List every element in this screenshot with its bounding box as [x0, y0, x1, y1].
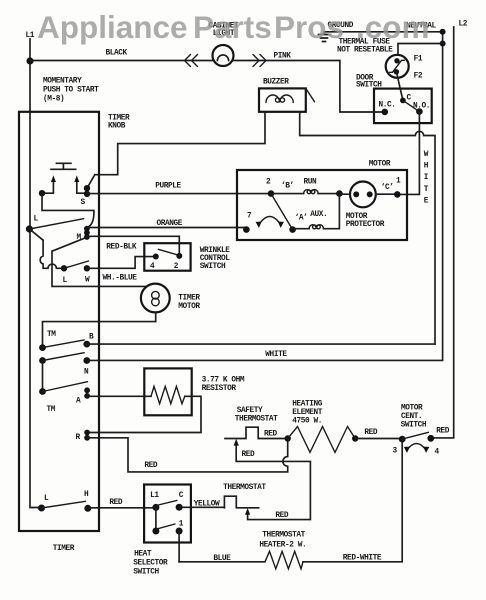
- motor box: [237, 170, 407, 240]
- svg-text:N.C.: N.C.: [379, 102, 396, 110]
- svg-text:L1: L1: [150, 492, 159, 500]
- svg-text:Parts: Parts: [193, 9, 272, 45]
- wire L to L-W switch: [29, 229, 64, 268]
- switch timer L-H: [38, 505, 45, 512]
- svg-text:WHITE: WHITE: [265, 351, 287, 359]
- wire BLACK: [30, 60, 214, 62]
- svg-text:HEAT: HEAT: [134, 551, 152, 559]
- wire protector leads: [339, 193, 397, 195]
- svg-text:‘A’: ‘A’: [295, 215, 308, 223]
- switch arm motor B to A: [271, 194, 293, 230]
- centrifugal action arc motor: [258, 217, 281, 226]
- svg-text:RED: RED: [436, 428, 450, 436]
- svg-text:I: I: [424, 174, 429, 182]
- wire RED from R to heater junction: [87, 438, 288, 472]
- heat selector switch: [144, 485, 191, 543]
- node M dots: [84, 226, 90, 232]
- wire M to timer motor: [52, 237, 147, 286]
- wire NEUTRAL: [87, 32, 443, 361]
- svg-text:C: C: [407, 95, 412, 103]
- svg-text:W: W: [85, 277, 90, 285]
- svg-text:ORANGE: ORANGE: [157, 220, 183, 228]
- svg-text:SAFETY: SAFETY: [237, 407, 263, 415]
- svg-text:RED: RED: [144, 462, 158, 470]
- svg-text:BUZZER: BUZZER: [263, 79, 289, 87]
- switch L-W: [61, 265, 67, 271]
- timer box: [19, 112, 99, 531]
- svg-text:4750 W.: 4750 W.: [292, 418, 322, 426]
- svg-text:B: B: [89, 334, 94, 342]
- svg-text:F1: F1: [414, 56, 423, 64]
- svg-text:WH.-BLUE: WH.-BLUE: [103, 275, 138, 283]
- svg-text:3.77 K OHM: 3.77 K OHM: [202, 377, 245, 385]
- wire connector chevrons right: [253, 55, 266, 67]
- svg-text:RED-BLK: RED-BLK: [106, 244, 137, 252]
- svg-text:‘C’: ‘C’: [381, 184, 394, 192]
- svg-text:THERMOSTAT: THERMOSTAT: [235, 416, 278, 424]
- svg-text:A: A: [76, 398, 81, 406]
- push button: [51, 163, 76, 169]
- svg-text:W: W: [424, 151, 429, 159]
- wire ORANGE: [87, 227, 247, 229]
- timer motor: [141, 284, 170, 313]
- svg-text:THERMOSTAT: THERMOSTAT: [223, 484, 266, 492]
- svg-text:R: R: [76, 434, 81, 442]
- svg-text:PROTECTOR: PROTECTOR: [346, 221, 385, 229]
- svg-text:BLUE: BLUE: [213, 555, 231, 563]
- svg-text:F2: F2: [414, 73, 423, 81]
- svg-text:Pros: Pros: [274, 9, 344, 45]
- svg-text:PINK: PINK: [274, 53, 292, 61]
- svg-text:RED: RED: [264, 431, 278, 439]
- svg-text:BLACK: BLACK: [106, 50, 128, 58]
- wire WHITE: [87, 343, 435, 345]
- wire fuse to door switch C: [396, 72, 403, 101]
- svg-text:.com: .com: [356, 9, 430, 45]
- svg-text:2: 2: [174, 263, 179, 271]
- svg-text:KNOB: KNOB: [108, 123, 126, 131]
- node motor terminal A: [289, 226, 296, 233]
- svg-text:MOTOR: MOTOR: [369, 161, 391, 169]
- wire YELLOW: [179, 506, 224, 508]
- node S dots: [84, 185, 90, 191]
- wire PINK: [233, 61, 385, 113]
- svg-text:1: 1: [396, 178, 401, 186]
- wire L2: [431, 27, 454, 438]
- node A dots: [84, 387, 90, 393]
- node heater junction left: [285, 435, 291, 441]
- svg-text:SELECTOR: SELECTOR: [133, 560, 168, 568]
- svg-text:MOMENTARY: MOMENTARY: [43, 78, 82, 86]
- svg-text:YELLOW: YELLOW: [194, 501, 220, 509]
- thermal fuse: [386, 55, 409, 78]
- wire PURPLE: [87, 193, 271, 195]
- svg-text:C: C: [179, 492, 184, 500]
- svg-text:ELEMENT: ELEMENT: [292, 409, 323, 417]
- wire bottom BLUE / RED-WHITE: [179, 439, 402, 562]
- svg-text:L: L: [44, 495, 49, 503]
- svg-text:TIMER: TIMER: [178, 295, 200, 303]
- svg-text:PUSH TO START: PUSH TO START: [43, 87, 99, 95]
- svg-text:CONTROL: CONTROL: [200, 255, 231, 263]
- svg-text:L: L: [63, 277, 68, 285]
- svg-text:PURPLE: PURPLE: [155, 183, 181, 191]
- svg-text:N: N: [84, 369, 89, 377]
- lamp cabinet light: [213, 45, 234, 66]
- resistor 3.77 K OHM: [87, 395, 151, 397]
- svg-text:MOTOR: MOTOR: [401, 405, 423, 413]
- svg-text:RUN: RUN: [304, 179, 318, 187]
- svg-text:SWITCH: SWITCH: [200, 263, 226, 271]
- wrinkle control switch: [144, 243, 190, 271]
- svg-text:WRINKLE: WRINKLE: [200, 247, 231, 255]
- svg-text:AUX.: AUX.: [310, 211, 327, 219]
- svg-text:CENT.: CENT.: [401, 413, 422, 421]
- svg-text:MOTOR: MOTOR: [346, 213, 368, 221]
- svg-text:Appliance: Appliance: [37, 9, 188, 45]
- svg-text:L: L: [34, 216, 39, 224]
- svg-text:4: 4: [435, 449, 440, 457]
- node neutral junction dots: [440, 29, 446, 35]
- node R dots: [84, 430, 90, 436]
- wire to cent switch: [355, 438, 402, 440]
- svg-text:TM: TM: [47, 406, 56, 414]
- wire buzzer left lead: [87, 112, 265, 188]
- svg-text:HEATING: HEATING: [292, 401, 323, 409]
- svg-text:S: S: [81, 199, 86, 207]
- wire red arrow tap: [236, 443, 310, 520]
- wire push start to M: [42, 193, 94, 227]
- svg-text:MOTOR: MOTOR: [178, 303, 200, 311]
- svg-text:NOT RESETABLE: NOT RESETABLE: [337, 47, 393, 55]
- node motor junction dot: [336, 190, 343, 197]
- svg-text:2: 2: [266, 179, 271, 187]
- svg-text:HEATER-2 W.: HEATER-2 W.: [259, 542, 306, 550]
- svg-text:‘B’: ‘B’: [281, 183, 294, 191]
- wire BLUE down from heat selector: [178, 531, 180, 562]
- svg-text:TIMER: TIMER: [108, 115, 130, 123]
- svg-text:RESISTOR: RESISTOR: [202, 385, 237, 393]
- wire RED to heat selector: [88, 507, 156, 509]
- wire resistor to R: [87, 396, 201, 432]
- svg-text:T: T: [424, 186, 429, 194]
- svg-text:4: 4: [150, 263, 155, 271]
- svg-text:TIMER: TIMER: [53, 545, 75, 553]
- svg-text:RED: RED: [109, 499, 123, 507]
- svg-text:3: 3: [393, 448, 398, 456]
- wire thermal fuse feed: [398, 44, 443, 55]
- wire door N.O. to motor 1: [397, 112, 419, 195]
- svg-text:RED: RED: [275, 512, 289, 520]
- svg-text:SWITCH: SWITCH: [401, 422, 427, 430]
- wire buzzer right lead to white line: [300, 112, 435, 344]
- svg-text:RED: RED: [364, 429, 378, 437]
- svg-text:RED: RED: [242, 451, 256, 459]
- svg-text:THERMOSTAT: THERMOSTAT: [262, 532, 305, 540]
- svg-text:L2: L2: [459, 21, 468, 29]
- svg-text:TM: TM: [47, 331, 56, 339]
- wire L1 main left spine: [30, 39, 42, 508]
- svg-text:(M-8): (M-8): [43, 96, 64, 104]
- motor protector: [350, 182, 376, 208]
- switch arm M-8: [29, 219, 83, 229]
- wire timer motor return: [43, 312, 156, 347]
- svg-text:E: E: [424, 197, 429, 205]
- svg-text:H: H: [84, 491, 89, 499]
- svg-text:1: 1: [179, 521, 184, 529]
- svg-text:SWITCH: SWITCH: [133, 569, 159, 577]
- node L1 junction dot: [26, 57, 33, 64]
- node motor terminal 2 B: [268, 190, 275, 197]
- switch S momentary: [39, 190, 45, 196]
- svg-text:H: H: [424, 163, 429, 171]
- wire connector chevrons left: [185, 55, 198, 67]
- svg-text:7: 7: [247, 213, 252, 221]
- wire RED-BLK: [87, 236, 179, 256]
- svg-text:RED-WHITE: RED-WHITE: [343, 555, 382, 563]
- wire WH.-BLUE: [87, 257, 156, 269]
